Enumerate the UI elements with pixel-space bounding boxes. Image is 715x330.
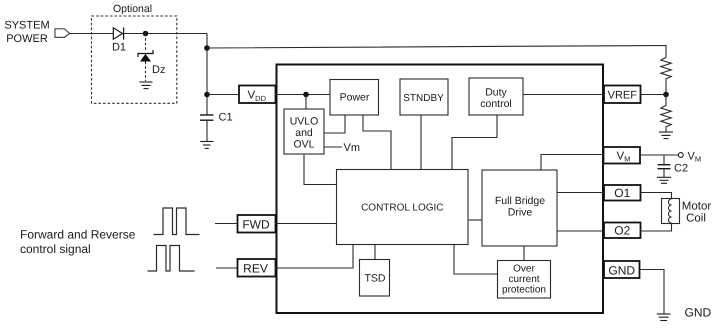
svg-text:control signal: control signal (20, 242, 91, 256)
capacitor C1 (200, 115, 214, 120)
node SYSTEM POWER label (4, 20, 49, 46)
wire Power bottom 1 to UVLO (324, 115, 345, 133)
svg-text:FWD: FWD (242, 218, 270, 232)
pin VDD (239, 86, 276, 104)
svg-text:C2: C2 (674, 163, 688, 175)
waveform REV pulse (148, 246, 195, 272)
pin FWD (238, 215, 276, 233)
resistor R1 upper (661, 58, 671, 95)
ground GND pin (657, 314, 671, 321)
block CONTROL LOGIC (337, 170, 469, 245)
block UVLO and OVL (284, 109, 324, 154)
wire UVLO bottom to CONTROL LOGIC left (304, 155, 337, 185)
svg-text:control: control (480, 98, 512, 110)
svg-text:D1: D1 (112, 42, 126, 54)
zener Dz (145, 34, 147, 52)
ground under R2 (659, 132, 673, 139)
wire UVLO to Vm stub (324, 146, 342, 148)
node junction UVLO tap (303, 92, 309, 98)
capacitor C2 (663, 155, 665, 165)
wire VDD to Power with junction (276, 94, 331, 96)
wire long top wire to resistor divider (207, 46, 666, 58)
wire motor coil to O2 (641, 224, 672, 232)
svg-text:Full Bridge: Full Bridge (495, 195, 545, 207)
wire GND pin to ground (640, 270, 665, 314)
wire VM pin to terminal (640, 154, 678, 156)
ground under C2 (657, 177, 671, 183)
node VM terminal circle (678, 153, 683, 158)
svg-text:Forward and Reverse: Forward and Reverse (20, 228, 136, 242)
wire D1 to corner (124, 33, 207, 35)
pin O2 (604, 223, 641, 239)
svg-text:VREF: VREF (608, 90, 638, 102)
svg-text:CONTROL LOGIC: CONTROL LOGIC (361, 203, 443, 214)
ground under C1 (200, 142, 214, 149)
svg-text:Dz: Dz (152, 64, 165, 76)
node junction at D1 output (143, 31, 149, 37)
svg-text:Motor: Motor (682, 201, 712, 213)
svg-text:protection: protection (502, 285, 546, 296)
waveform FWD pulse (154, 208, 200, 235)
wire Power bottom 2 to CONTROL LOGIC (363, 115, 391, 170)
diode D1 (113, 27, 123, 39)
wire Over current protection to Full Bridge Drive (523, 246, 525, 261)
motor coil box (662, 199, 680, 224)
wire FWD to CONTROL LOGIC (276, 223, 337, 225)
connector input tag (55, 29, 70, 38)
svg-text:GND: GND (685, 306, 712, 320)
svg-text:SYSTEM: SYSTEM (4, 20, 49, 32)
node junction top rail (204, 45, 210, 51)
wire VREF to divider (641, 94, 666, 96)
svg-text:Vm: Vm (344, 142, 361, 154)
svg-text:Over: Over (513, 264, 535, 275)
svg-text:Duty: Duty (485, 87, 507, 99)
wire Full Bridge Drive to O2 (557, 230, 604, 232)
wire REV to CONTROL LOGIC (276, 245, 354, 269)
block Full Bridge Drive (482, 170, 557, 246)
node junction at VREF (663, 92, 669, 98)
pin O1 (604, 185, 641, 201)
svg-text:current: current (508, 274, 539, 285)
wire O1 to motor coil (641, 193, 672, 199)
IC U1 main outline (277, 65, 604, 314)
block Duty control (469, 78, 523, 115)
block TSD (360, 260, 390, 297)
resistor R2 lower (661, 95, 671, 132)
pin VM (604, 147, 641, 164)
block STNDBY (400, 79, 448, 115)
wire Full Bridge Drive to O1 (557, 192, 604, 194)
svg-text:Optional: Optional (113, 3, 152, 15)
svg-text:OVL: OVL (293, 139, 314, 151)
ground under Dz (140, 82, 153, 89)
node Motor Coil label (682, 201, 712, 225)
svg-text:and: and (295, 127, 313, 139)
svg-text:Coil: Coil (686, 213, 706, 225)
pin VREF (604, 86, 641, 104)
node forward reverse label (20, 228, 136, 257)
wire STNDBY to CONTROL LOGIC (420, 115, 422, 170)
svg-text:O1: O1 (614, 186, 630, 200)
block Power (330, 80, 379, 116)
wire REV stub external (216, 267, 238, 269)
svg-text:GND: GND (608, 264, 635, 278)
svg-text:REV: REV (243, 262, 268, 276)
optional dashed box (92, 16, 177, 103)
wire CONTROL LOGIC to Full Bridge Drive (468, 219, 482, 221)
wire Duty control to VREF pin (523, 94, 604, 96)
svg-text:TSD: TSD (365, 273, 386, 285)
wire FWD stub external (215, 223, 238, 225)
wire CONTROL LOGIC to TSD (374, 245, 376, 260)
svg-text:O2: O2 (614, 223, 630, 237)
pin REV (238, 259, 276, 277)
pin GND (604, 261, 640, 278)
node junction at VDD (204, 92, 210, 98)
wire CONTROL LOGIC to Over current protection (454, 245, 498, 275)
svg-text:Drive: Drive (508, 207, 533, 219)
block Over current protection (498, 261, 551, 299)
svg-text:UVLO: UVLO (290, 116, 319, 128)
wire main vertical rail (206, 34, 208, 116)
wire junction down to UVLO (305, 95, 307, 110)
svg-text:C1: C1 (219, 112, 233, 124)
wire input to D1 (70, 33, 114, 35)
wire Full Bridge Drive to VM pin (541, 155, 604, 171)
wire rail to VDD pin (207, 94, 239, 96)
svg-text:POWER: POWER (6, 33, 48, 45)
inductor motor coil (669, 199, 672, 223)
svg-text:Power: Power (340, 92, 370, 104)
wire Duty control to CONTROL LOGIC (452, 115, 497, 170)
svg-text:STNDBY: STNDBY (403, 93, 444, 104)
